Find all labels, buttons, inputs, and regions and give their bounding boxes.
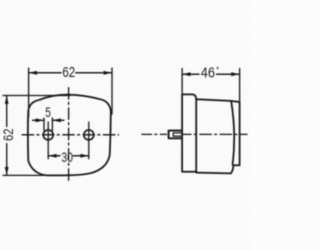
svg-text:62: 62 [0,128,16,141]
dimension 62 left: extension lines [3,95,70,97]
svg-text:5: 5 [45,104,51,120]
dimension 5: arrow lines outside [33,119,65,121]
svg-text:62: 62 [62,65,75,81]
screw hole left [43,130,53,140]
svg-text:46: 46 [201,65,215,81]
stray scan tick after 46 [217,67,218,70]
side view: lens dome profile curve [231,101,234,165]
dimension 5: extension bars [44,118,52,131]
dimension 62 left: arrowheads [5,96,9,104]
screw hole left center mark [47,122,49,159]
dimension 62 left: dimension line [6,96,8,176]
stud outer [169,131,182,139]
dimension 46: dimension line [182,73,240,75]
dimension 62 top: dimension line [29,72,112,74]
lamp front view outline [28,95,111,176]
dimension 46: right extension line [239,69,241,103]
dimension 62 top: extension lines [28,68,30,117]
svg-text:30: 30 [61,149,73,165]
horizontal centerline front view [21,134,119,136]
dimension 46: arrowheads [182,72,190,76]
screw hole right [84,130,94,140]
side view: mounting face / 46 left extension [181,69,183,95]
horizontal centerline side view [142,133,167,135]
vertical centerline front view [68,88,70,184]
stud inner notch [173,133,182,136]
dimension 62 top: arrowheads [29,71,37,75]
dimension 5: arrowheads [36,118,44,122]
horizontal centerline side view (right of stud) [183,133,247,135]
side view: outer silhouette [182,94,240,173]
screw hole right center mark [88,122,90,159]
side view: body step vertical line [195,99,197,172]
dimension 30: dimension line with inside arrows [48,155,89,157]
